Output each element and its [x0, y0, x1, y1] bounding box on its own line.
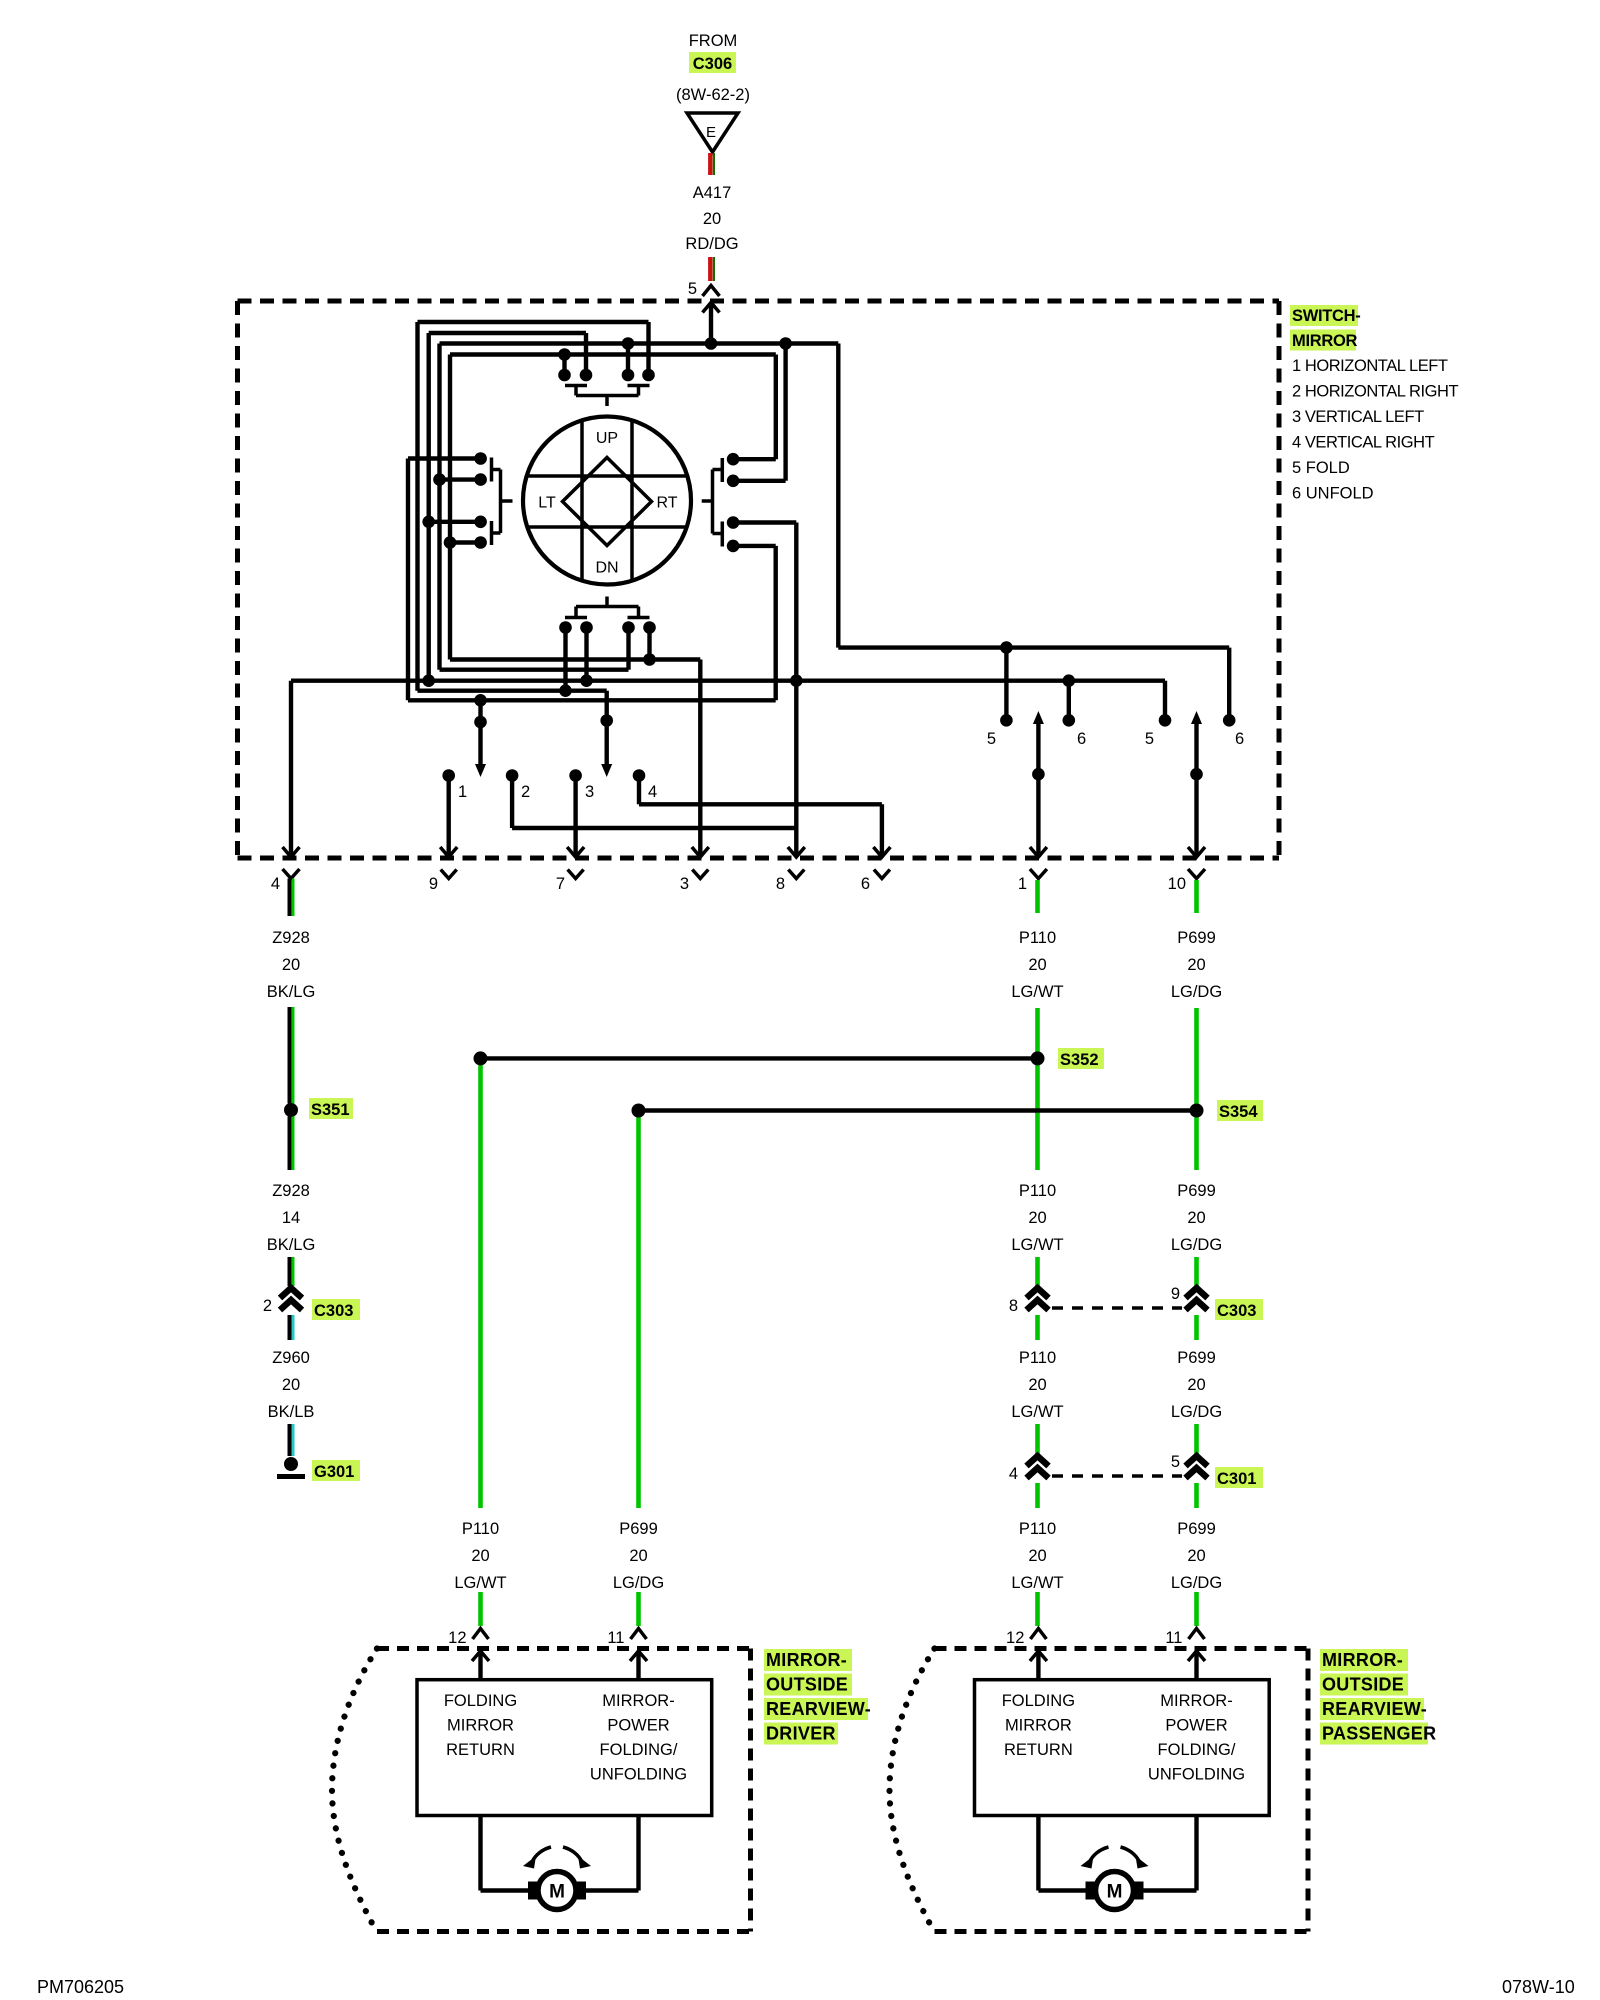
svg-text:LG/DG: LG/DG — [1171, 1403, 1222, 1421]
wire pin 7 drop — [573, 776, 577, 857]
wire P699 seg to C301 — [1194, 1424, 1199, 1454]
top contact bridge bars — [565, 384, 587, 388]
svg-text:MIRROR-: MIRROR- — [1322, 1650, 1403, 1670]
svg-text:MIRROR: MIRROR — [447, 1717, 514, 1735]
wire Z928 seg3 — [288, 1117, 292, 1171]
motor M — [1086, 1882, 1097, 1900]
svg-text:9: 9 — [1171, 1285, 1180, 1303]
pin 12 chevron and number — [473, 1629, 489, 1640]
svg-text:UP: UP — [596, 430, 618, 447]
svg-text:3: 3 — [680, 875, 689, 893]
svg-text:LG/WT: LG/WT — [1011, 1574, 1063, 1592]
wire top bus line 1 — [418, 320, 649, 324]
bottom contact stub 2 — [584, 628, 588, 681]
selector pole arrow right — [605, 691, 609, 765]
label MIRROR-OUTSIDE REARVIEW-DRIVER — [764, 1649, 852, 1671]
svg-text:4: 4 — [271, 875, 280, 893]
svg-text:1: 1 — [1018, 875, 1027, 893]
wire module to motor right — [636, 1816, 640, 1891]
wire P110 driver tail — [478, 1592, 483, 1626]
wire Z928 20 BK/LG seg1 — [288, 879, 292, 917]
connector C306 label — [689, 52, 736, 73]
rocker circle chords — [580, 421, 584, 581]
svg-text:C306: C306 — [693, 55, 732, 73]
wire right riser to pin 8 — [794, 523, 798, 857]
wire line 691 — [418, 689, 607, 693]
svg-text:A417: A417 — [693, 184, 732, 202]
svg-text:20: 20 — [703, 210, 721, 228]
left contact line 4 — [450, 540, 481, 544]
left contact line 1 — [408, 456, 481, 460]
ground G301 — [284, 1457, 298, 1471]
svg-text:UNFOLDING: UNFOLDING — [1148, 1766, 1245, 1784]
svg-text:12: 12 — [1006, 1629, 1024, 1647]
wire P699 pin10 seg1 — [1194, 880, 1199, 913]
selector contact 1 — [442, 769, 455, 782]
left contact line 3 — [429, 520, 481, 524]
switch rocker knob circle — [523, 417, 691, 585]
svg-text:20: 20 — [282, 1376, 300, 1394]
pin 3 fork — [692, 870, 708, 879]
svg-text:MIRROR-: MIRROR- — [1160, 1692, 1232, 1710]
svg-text:20: 20 — [1187, 1209, 1205, 1227]
mirror module inner box — [975, 1680, 1270, 1816]
svg-text:POWER: POWER — [1165, 1717, 1227, 1735]
fold contact 5 right — [1163, 681, 1167, 721]
wire P110 pin1 seg2 — [1035, 1008, 1040, 1170]
pin 1 fork — [1030, 869, 1047, 879]
wire pin5 feed entering switch with up arrow — [703, 303, 720, 313]
svg-text:S354: S354 — [1219, 1103, 1258, 1121]
wire P110 pin1 seg1 — [1035, 880, 1040, 913]
splice S352 — [481, 1056, 1038, 1060]
wire P699 pin10 seg3 — [1194, 1117, 1199, 1170]
svg-text:8: 8 — [776, 875, 785, 893]
pin 11 chevron and number — [1189, 1629, 1205, 1640]
svg-text:2 HORIZONTAL RIGHT: 2 HORIZONTAL RIGHT — [1292, 383, 1458, 401]
top contact stub A — [562, 355, 566, 376]
svg-text:Z928: Z928 — [272, 929, 310, 947]
right contact actuator bracket — [713, 468, 723, 472]
wire left bus from line4 — [448, 355, 452, 660]
wire P110 driver branch — [478, 1065, 483, 1508]
svg-text:5: 5 — [1145, 730, 1154, 748]
wire line 660 — [450, 657, 700, 661]
connector C301 dashed link — [1052, 1474, 1182, 1478]
pin 8 fork — [788, 870, 804, 879]
wire line 670 — [440, 668, 629, 672]
fold contact 5 left — [1004, 648, 1008, 721]
selector pole arrow left — [478, 700, 482, 765]
svg-text:5: 5 — [1171, 1453, 1180, 1471]
svg-text:P699: P699 — [1177, 1182, 1216, 1200]
svg-text:20: 20 — [1028, 1376, 1046, 1394]
pin 11 entry arrow — [1194, 1651, 1198, 1680]
svg-text:5 FOLD: 5 FOLD — [1292, 459, 1350, 477]
svg-text:078W-10: 078W-10 — [1502, 1977, 1575, 1997]
wire fold feed line — [838, 645, 1229, 649]
rocker diamond — [563, 458, 652, 546]
pin 6 fork — [874, 870, 890, 879]
connector C303 dashed link — [1052, 1306, 1182, 1310]
motor rotation arrows — [532, 1847, 551, 1862]
wire P699 below C301 — [1194, 1483, 1199, 1508]
pin 12 entry arrow — [1036, 1651, 1040, 1680]
svg-text:LG/WT: LG/WT — [1011, 1403, 1063, 1421]
svg-text:20: 20 — [1187, 1376, 1205, 1394]
svg-text:RETURN: RETURN — [1004, 1741, 1073, 1759]
wire Z960 20 BK/LB seg1 — [288, 1315, 292, 1340]
top contact stub D — [646, 322, 650, 375]
splice S351 — [284, 1103, 298, 1117]
switch S1 SWITCH-MIRROR dashed outline — [238, 299, 1280, 304]
svg-text:BK/LG: BK/LG — [267, 1236, 316, 1254]
wire P699 below C303 — [1194, 1315, 1199, 1340]
svg-text:FOLDING: FOLDING — [444, 1692, 517, 1710]
wire Z960 seg2 — [288, 1424, 292, 1456]
svg-text:P110: P110 — [1019, 1349, 1056, 1367]
svg-text:LG/WT: LG/WT — [1011, 1236, 1063, 1254]
bottom contact bridge bars — [565, 616, 587, 620]
top contact stub B — [584, 333, 588, 375]
right contact line 2 — [733, 479, 786, 483]
svg-text:11: 11 — [607, 1629, 624, 1647]
svg-text:4: 4 — [1009, 1465, 1018, 1483]
wire right riser to line4 — [774, 355, 778, 460]
svg-text:20: 20 — [282, 956, 300, 974]
wire left bus feed — [437, 344, 441, 670]
svg-text:E: E — [706, 124, 716, 141]
wire pin 10 riser with arrow — [1191, 711, 1202, 724]
wire fold feed riser — [836, 344, 840, 648]
pin 9 fork — [441, 870, 457, 879]
connector C301 pin 5 — [1186, 1456, 1208, 1466]
pin 11 chevron and number — [631, 1629, 647, 1640]
svg-text:P110: P110 — [462, 1520, 499, 1538]
svg-text:(8W-62-2): (8W-62-2) — [676, 86, 750, 104]
mirror module dashed outline — [935, 1646, 1309, 1651]
svg-text:LG/WT: LG/WT — [454, 1574, 506, 1592]
svg-text:20: 20 — [1028, 1209, 1046, 1227]
svg-text:BK/LG: BK/LG — [267, 983, 316, 1001]
wire pin 4 drop — [289, 681, 293, 856]
wire P110 seg to C303 — [1035, 1257, 1040, 1286]
svg-text:5: 5 — [688, 280, 697, 298]
splice S354 — [639, 1108, 1197, 1112]
right contact bridge bars — [721, 458, 725, 482]
svg-text:UNFOLDING: UNFOLDING — [590, 1766, 687, 1784]
svg-text:10: 10 — [1168, 875, 1186, 893]
bottom contact actuator bracket — [605, 597, 609, 607]
svg-text:20: 20 — [1028, 1547, 1046, 1565]
pin 7 fork — [568, 870, 584, 879]
svg-text:3 VERTICAL LEFT: 3 VERTICAL LEFT — [1292, 408, 1424, 426]
svg-text:RD/DG: RD/DG — [685, 235, 738, 253]
switch border pin arrows — [283, 847, 300, 857]
right contact line 4 — [733, 544, 776, 548]
svg-text:8: 8 — [1009, 1297, 1018, 1315]
svg-text:DN: DN — [595, 560, 618, 577]
connector C303 pin 8 — [1027, 1288, 1049, 1298]
svg-text:OUTSIDE: OUTSIDE — [766, 1675, 848, 1695]
svg-text:PASSENGER: PASSENGER — [1322, 1724, 1436, 1744]
motor M — [528, 1882, 539, 1900]
svg-text:6: 6 — [1077, 730, 1086, 748]
svg-text:DRIVER: DRIVER — [766, 1724, 836, 1744]
svg-text:C303: C303 — [314, 1302, 353, 1320]
wire contact2 to pin 8 — [510, 776, 514, 829]
wire pin 1 riser with arrow — [1033, 711, 1044, 724]
svg-text:P110: P110 — [1019, 1182, 1056, 1200]
svg-text:20: 20 — [471, 1547, 489, 1565]
svg-text:20: 20 — [629, 1547, 647, 1565]
svg-text:6: 6 — [1235, 730, 1244, 748]
selector contact 2 — [506, 769, 519, 782]
svg-text:4: 4 — [648, 783, 657, 801]
svg-text:C301: C301 — [1217, 1470, 1256, 1488]
svg-text:7: 7 — [556, 875, 565, 893]
wire contact4 to pin 6 — [637, 776, 641, 805]
svg-text:M: M — [1107, 1882, 1123, 1903]
pin 11 entry arrow — [636, 1651, 640, 1680]
svg-text:2: 2 — [263, 1297, 272, 1315]
svg-text:M: M — [549, 1882, 565, 1903]
wire pin 3 drop — [698, 660, 702, 857]
svg-text:G301: G301 — [314, 1463, 354, 1481]
pin 4 fork — [283, 869, 300, 879]
svg-text:FOLDING/: FOLDING/ — [600, 1741, 678, 1759]
svg-text:20: 20 — [1028, 956, 1046, 974]
pin 12 chevron and number — [1030, 1629, 1046, 1640]
left contact bridge bars — [490, 458, 494, 482]
svg-text:P699: P699 — [1177, 929, 1216, 947]
svg-text:LG/DG: LG/DG — [1171, 1236, 1222, 1254]
svg-text:6: 6 — [861, 875, 870, 893]
svg-text:Z928: Z928 — [272, 1182, 310, 1200]
svg-text:POWER: POWER — [607, 1717, 669, 1735]
left contact actuator bracket — [492, 468, 501, 472]
svg-text:11: 11 — [1165, 1629, 1182, 1647]
svg-text:SWITCH-: SWITCH- — [1292, 307, 1360, 325]
fold contact 6 left — [1067, 681, 1071, 721]
svg-text:MIRROR: MIRROR — [1005, 1717, 1072, 1735]
svg-text:LT: LT — [538, 495, 556, 512]
svg-text:4 VERTICAL RIGHT: 4 VERTICAL RIGHT — [1292, 434, 1435, 452]
wire module to motor left — [1036, 1816, 1040, 1891]
wire module to motor left — [478, 1816, 482, 1891]
svg-text:RT: RT — [656, 495, 677, 512]
svg-text:LG/DG: LG/DG — [1171, 1574, 1222, 1592]
svg-text:P699: P699 — [1177, 1520, 1216, 1538]
right contact line 1 — [733, 457, 776, 461]
selector contact 4 — [633, 769, 646, 782]
svg-text:MIRROR-: MIRROR- — [766, 1650, 847, 1670]
off-page connector E triangle — [687, 113, 738, 152]
wire pin 9 drop — [447, 776, 451, 857]
svg-text:14: 14 — [282, 1209, 300, 1227]
wire P699 pin10 seg2 — [1194, 1008, 1199, 1104]
pin 5 connector fork at switch — [703, 286, 720, 297]
svg-text:P699: P699 — [1177, 1349, 1216, 1367]
svg-text:P110: P110 — [1019, 929, 1056, 947]
left contact line 2 — [440, 477, 481, 481]
svg-text:FROM: FROM — [689, 32, 738, 50]
wire P110 below C301 — [1035, 1483, 1040, 1508]
wire Z928 seg4 — [288, 1257, 292, 1286]
svg-text:P699: P699 — [619, 1520, 658, 1538]
connector C303 pin 2 — [280, 1288, 302, 1298]
bottom contact stub 1 — [563, 628, 567, 691]
svg-text:BK/LB: BK/LB — [268, 1403, 315, 1421]
pin 10 fork — [1188, 869, 1205, 879]
wire line 700 — [408, 698, 776, 702]
wire Z928 seg2 — [288, 1007, 292, 1104]
motor rotation arrows — [1090, 1847, 1109, 1862]
svg-text:LG/DG: LG/DG — [613, 1574, 664, 1592]
label MIRROR-OUTSIDE REARVIEW-PASSENGER — [1320, 1649, 1408, 1671]
wire P110 seg to C301 — [1035, 1424, 1040, 1454]
wire ground line 681 to pin 4 — [291, 679, 1165, 683]
bottom contact stub 3 — [626, 628, 630, 670]
top contact stub C — [626, 344, 630, 376]
svg-text:20: 20 — [1187, 1547, 1205, 1565]
svg-text:RETURN: RETURN — [446, 1741, 515, 1759]
svg-text:Z960: Z960 — [272, 1349, 310, 1367]
wire top bus line 4 — [450, 352, 776, 356]
wire P110 below C303 — [1035, 1315, 1040, 1340]
wire left bus from LC1 — [406, 459, 410, 701]
bottom contact stub 4 — [647, 628, 651, 660]
svg-text:FOLDING/: FOLDING/ — [1158, 1741, 1236, 1759]
wire A417 20 RD/DG upper segment — [708, 153, 712, 175]
fold contact 6 right — [1227, 648, 1231, 721]
connector C301 pin 4 — [1027, 1456, 1049, 1466]
mirror module dashed outline — [377, 1646, 751, 1651]
svg-text:LG/WT: LG/WT — [1011, 983, 1063, 1001]
svg-text:6 UNFOLD: 6 UNFOLD — [1292, 485, 1374, 503]
wire right riser to feed line — [783, 344, 787, 481]
svg-text:3: 3 — [585, 783, 594, 801]
mirror module inner box — [417, 1680, 712, 1816]
svg-text:PM706205: PM706205 — [37, 1977, 124, 1997]
wire P699 seg to C303 — [1194, 1257, 1199, 1286]
svg-text:1 HORIZONTAL LEFT: 1 HORIZONTAL LEFT — [1292, 357, 1448, 375]
svg-text:5: 5 — [987, 730, 996, 748]
wire top bus line 3 feed — [440, 341, 839, 345]
wire module to motor right — [1194, 1816, 1198, 1891]
wire top bus line 2 — [429, 331, 586, 335]
svg-text:REARVIEW-: REARVIEW- — [1322, 1699, 1427, 1719]
svg-text:MIRROR: MIRROR — [1292, 332, 1357, 350]
connector C303 pin 9 — [1186, 1288, 1208, 1298]
wire A417 20 RD/DG lower segment — [708, 257, 712, 281]
svg-text:9: 9 — [429, 875, 438, 893]
wire P699 passenger tail — [1194, 1592, 1199, 1626]
svg-text:12: 12 — [448, 1629, 466, 1647]
svg-text:20: 20 — [1187, 956, 1205, 974]
wire P699 driver tail — [636, 1592, 641, 1626]
svg-text:C303: C303 — [1217, 1302, 1256, 1320]
svg-text:REARVIEW-: REARVIEW- — [766, 1699, 871, 1719]
svg-text:2: 2 — [521, 783, 530, 801]
svg-text:MIRROR-: MIRROR- — [602, 1692, 674, 1710]
top contact actuator bracket — [574, 386, 578, 396]
svg-text:S351: S351 — [311, 1101, 350, 1119]
right contact line 3 — [733, 520, 796, 524]
wire right riser to line700 — [774, 546, 778, 700]
svg-text:P110: P110 — [1019, 1520, 1056, 1538]
wire P699 driver branch — [636, 1117, 641, 1508]
svg-text:LG/DG: LG/DG — [1171, 983, 1222, 1001]
svg-text:FOLDING: FOLDING — [1002, 1692, 1075, 1710]
switch label SWITCH-MIRROR — [1290, 305, 1358, 326]
svg-text:OUTSIDE: OUTSIDE — [1322, 1675, 1404, 1695]
pin 12 entry arrow — [478, 1651, 482, 1680]
wire left bus from line2 — [427, 333, 431, 681]
selector contact 3 — [569, 769, 582, 782]
wire P110 passenger tail — [1035, 1592, 1040, 1626]
wire left bus from line1 — [415, 322, 419, 691]
svg-text:1: 1 — [458, 783, 467, 801]
svg-text:S352: S352 — [1060, 1051, 1099, 1069]
